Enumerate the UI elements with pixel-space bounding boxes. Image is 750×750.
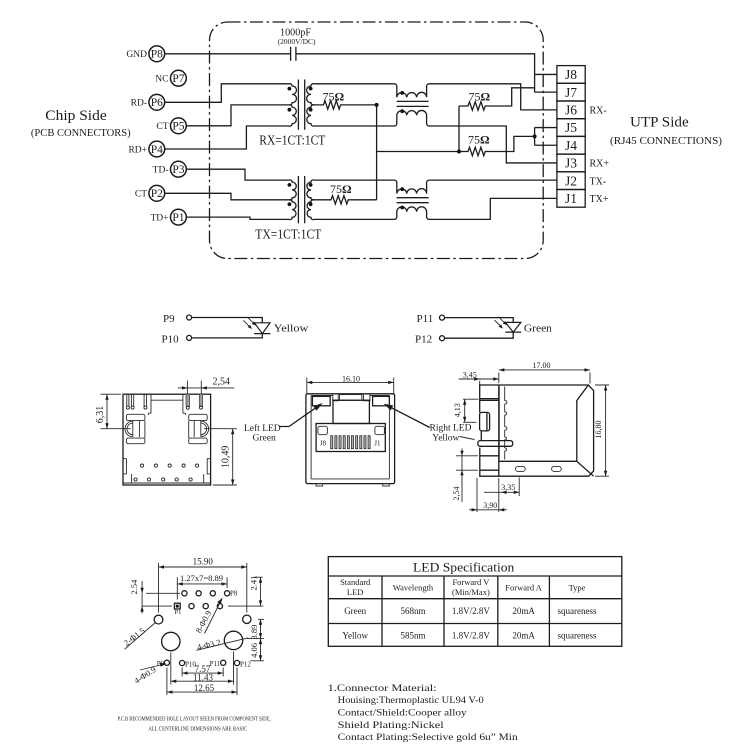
svg-text:3,35: 3,35	[501, 483, 515, 492]
svg-text:P8: P8	[151, 49, 163, 61]
svg-text:10,49: 10,49	[221, 446, 232, 469]
svg-text:NC: NC	[155, 75, 168, 85]
svg-text:TD-: TD-	[153, 166, 169, 176]
svg-text:P10: P10	[162, 333, 180, 345]
svg-text:1.8V/2.8V: 1.8V/2.8V	[452, 606, 491, 616]
svg-text:20mA: 20mA	[512, 606, 535, 616]
svg-text:4,13: 4,13	[453, 403, 462, 417]
svg-text:1.Connector Material:: 1.Connector Material:	[328, 684, 437, 694]
svg-text:2.41: 2.41	[248, 576, 258, 591]
svg-text:Wavelength: Wavelength	[393, 583, 434, 593]
svg-text:RD+: RD+	[128, 145, 147, 155]
svg-text:75Ω: 75Ω	[323, 90, 345, 104]
svg-text:2,54: 2,54	[213, 377, 231, 388]
svg-text:Chip Side: Chip Side	[45, 108, 106, 124]
svg-text:ALL CENTERLINE DIMENSIONS ARE: ALL CENTERLINE DIMENSIONS ARE BASIC	[148, 726, 247, 733]
svg-text:P.C.B RECOMMENDED HOLE LAYOUT: P.C.B RECOMMENDED HOLE LAYOUT SEEEN FROM…	[118, 716, 271, 723]
svg-text:P8: P8	[230, 589, 238, 597]
svg-text:J8: J8	[320, 440, 327, 448]
svg-text:15.90: 15.90	[193, 557, 214, 567]
svg-text:LED Specification: LED Specification	[413, 560, 515, 575]
svg-text:P9: P9	[163, 313, 175, 325]
svg-text:RX=1CT:1CT: RX=1CT:1CT	[259, 133, 326, 148]
svg-text:3,90: 3,90	[483, 501, 497, 510]
svg-text:Left LED: Left LED	[244, 423, 281, 434]
svg-text:(2000V/DC): (2000V/DC)	[278, 37, 316, 46]
svg-text:75Ω: 75Ω	[468, 132, 490, 146]
svg-text:J1: J1	[565, 191, 577, 206]
svg-text:1.27x7=8.89: 1.27x7=8.89	[180, 573, 223, 583]
svg-text:17.00: 17.00	[533, 361, 551, 370]
svg-text:20mA: 20mA	[512, 630, 535, 640]
svg-text:TX+: TX+	[590, 194, 609, 205]
svg-text:12.65: 12.65	[194, 683, 215, 693]
svg-text:Type: Type	[569, 583, 586, 593]
svg-text:Yellow: Yellow	[432, 434, 459, 444]
svg-text:J4: J4	[565, 138, 577, 153]
svg-text:568nm: 568nm	[400, 606, 425, 616]
svg-text:(PCB CONNECTORS): (PCB CONNECTORS)	[31, 127, 131, 139]
svg-text:P11: P11	[210, 660, 221, 668]
svg-text:TX=1CT:1CT: TX=1CT:1CT	[255, 226, 322, 241]
svg-text:(RJ45 CONNECTIONS): (RJ45 CONNECTIONS)	[610, 135, 722, 147]
svg-text:P12: P12	[240, 661, 251, 669]
svg-text:P1: P1	[175, 609, 182, 616]
svg-text:6,31: 6,31	[95, 406, 106, 424]
svg-text:P12: P12	[415, 333, 432, 345]
svg-text:P3: P3	[172, 164, 184, 176]
svg-text:3.89: 3.89	[249, 625, 259, 640]
svg-text:J2: J2	[565, 173, 577, 188]
svg-text:Standard: Standard	[340, 577, 371, 587]
svg-text:RX+: RX+	[590, 159, 610, 170]
svg-text:Houising:Thermoplastic UL94 V-: Houising:Thermoplastic UL94 V-0	[338, 696, 484, 706]
svg-text:J5: J5	[565, 120, 577, 135]
svg-text:P7: P7	[172, 73, 184, 85]
svg-text:P11: P11	[417, 313, 434, 325]
svg-text:Shield Plating:Nickel: Shield Plating:Nickel	[338, 721, 444, 731]
svg-text:RD-: RD-	[131, 99, 147, 109]
svg-text:J3: J3	[565, 156, 577, 171]
svg-text:J8: J8	[565, 67, 577, 82]
svg-text:16,80: 16,80	[594, 421, 603, 439]
svg-text:P1: P1	[172, 212, 184, 224]
svg-text:GND: GND	[126, 50, 147, 60]
svg-text:Green: Green	[253, 434, 276, 444]
svg-text:J1: J1	[374, 440, 381, 448]
svg-text:2,54: 2,54	[452, 487, 461, 501]
svg-text:Right LED: Right LED	[430, 424, 472, 434]
svg-text:P2: P2	[151, 188, 163, 200]
svg-text:585nm: 585nm	[400, 630, 425, 640]
svg-text:Yellow: Yellow	[274, 324, 310, 335]
svg-text:75Ω: 75Ω	[469, 90, 491, 104]
svg-text:Green: Green	[524, 324, 552, 335]
svg-text:(Min/Max): (Min/Max)	[452, 587, 490, 597]
svg-text:P4: P4	[151, 144, 163, 156]
svg-text:TD+: TD+	[150, 214, 168, 224]
svg-text:Yellow: Yellow	[342, 630, 368, 640]
svg-text:Contact/Shield:Cooper alloy: Contact/Shield:Cooper alloy	[338, 709, 467, 719]
svg-text:Forward A: Forward A	[505, 583, 542, 593]
svg-text:Contact Plating:Selective gold: Contact Plating:Selective gold 6u” Min	[338, 733, 518, 743]
svg-text:Forward V: Forward V	[452, 577, 490, 587]
svg-text:1.8V/2.8V: 1.8V/2.8V	[452, 630, 491, 640]
svg-text:Green: Green	[344, 606, 366, 616]
svg-text:J7: J7	[565, 85, 577, 100]
svg-text:TX-: TX-	[590, 176, 607, 187]
svg-text:squareness: squareness	[558, 630, 597, 640]
svg-text:J6: J6	[565, 103, 577, 118]
svg-text:CT: CT	[156, 122, 168, 132]
svg-text:LED: LED	[347, 587, 364, 597]
svg-text:2.54: 2.54	[129, 579, 139, 595]
svg-text:UTP Side: UTP Side	[630, 115, 689, 131]
svg-text:squareness: squareness	[558, 606, 597, 616]
svg-text:P5: P5	[172, 121, 184, 133]
svg-text:RX-: RX-	[590, 106, 607, 117]
svg-text:CT: CT	[135, 190, 147, 200]
svg-text:4.06: 4.06	[249, 643, 259, 658]
svg-text:75Ω: 75Ω	[330, 182, 352, 196]
svg-text:P6: P6	[151, 97, 163, 109]
